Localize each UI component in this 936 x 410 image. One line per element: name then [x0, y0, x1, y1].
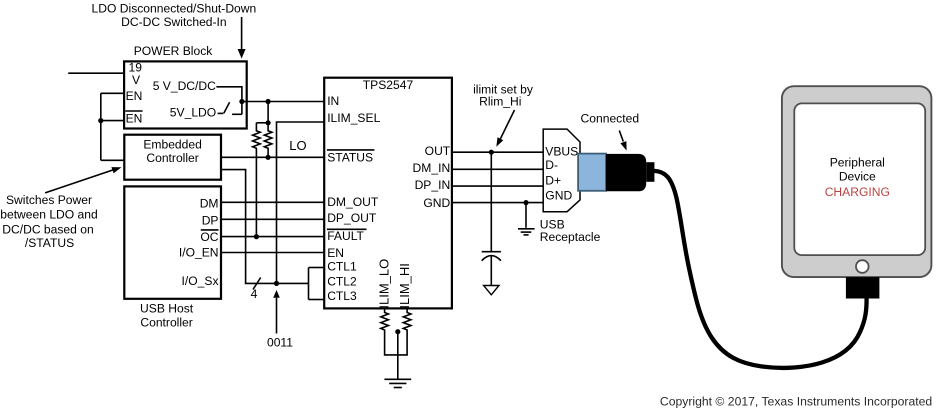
svg-text:CTL2: CTL2	[327, 275, 357, 289]
ground arrow (capacitor)	[484, 286, 499, 295]
pin STATUS-bar label	[327, 150, 375, 165]
svg-text:EN: EN	[126, 89, 143, 103]
svg-text:4: 4	[251, 287, 258, 301]
svg-text:DM: DM	[200, 197, 219, 211]
arrow 0011	[273, 290, 280, 334]
switch S1 blade (LDO disconnected)	[224, 102, 230, 113]
svg-text:TPS2547: TPS2547	[363, 78, 414, 92]
svg-text:GND: GND	[545, 189, 572, 203]
pin OC-bar label	[200, 230, 218, 244]
junction dot rail	[266, 99, 271, 104]
USB Host Controller box	[124, 186, 221, 298]
CTL bus bracket	[309, 268, 325, 300]
switch S1 pivot lead	[218, 112, 224, 114]
wire EN input	[101, 92, 124, 94]
svg-text:GND: GND	[423, 196, 450, 210]
svg-text:OC: OC	[200, 230, 218, 244]
USB receptacle outline	[543, 129, 580, 212]
junction dot GND	[523, 200, 528, 205]
Embedded Controller label	[143, 138, 202, 166]
wire LDO contact stub	[232, 113, 242, 115]
wire ILIM ground	[397, 332, 399, 380]
junction dot resistor top	[266, 120, 271, 125]
wire ILIM_SEL	[277, 122, 325, 283]
svg-text:DP_IN: DP_IN	[415, 178, 451, 192]
svg-text:Connected: Connected	[581, 112, 640, 126]
svg-text:LDO Disconnected/Shut-Down: LDO Disconnected/Shut-Down	[92, 2, 257, 16]
label USB Receptacle	[540, 217, 601, 244]
svg-text:I/O_Sx: I/O_Sx	[182, 274, 219, 288]
junction dot bus/ILIM_SEL	[274, 281, 279, 286]
wire EC to CTL bus	[221, 170, 309, 284]
svg-text:EN: EN	[327, 246, 344, 260]
junction dot ILIM ground node	[395, 329, 400, 334]
svg-text:D+: D+	[545, 173, 561, 187]
svg-text:POWER Block: POWER Block	[134, 44, 214, 58]
wire OC to FAULT	[221, 236, 324, 238]
svg-text:ILIM_HI: ILIM_HI	[397, 263, 412, 309]
wire DM_IN to D-	[452, 168, 543, 170]
wire STATUS	[221, 156, 324, 158]
svg-text:CHARGING: CHARGING	[825, 185, 890, 199]
svg-text:Embedded: Embedded	[143, 138, 202, 152]
junction dot EN-bar	[98, 118, 103, 123]
svg-text:Switches Power: Switches Power	[6, 193, 92, 207]
Embedded Controller box	[124, 135, 221, 180]
svg-text:D-: D-	[545, 158, 558, 172]
svg-text:ILIM_LO: ILIM_LO	[377, 259, 392, 309]
tablet home button	[856, 260, 869, 273]
svg-text:DM_OUT: DM_OUT	[327, 195, 379, 209]
USB plug strain relief tab	[646, 162, 654, 182]
bus slash	[253, 278, 261, 290]
resistor R3 ILIM_LO	[381, 308, 398, 355]
arrow from Switches Power note to Embedded Controller	[45, 167, 121, 193]
wire rail drop to resistors	[267, 102, 269, 123]
arrow ilimit to OUT node	[496, 110, 514, 147]
junction dot power output	[239, 99, 244, 104]
wire vertical EN bus	[100, 93, 102, 160]
USB plug black body	[606, 154, 646, 191]
svg-text:Peripheral: Peripheral	[830, 155, 885, 169]
pin EN-bar label	[125, 111, 142, 125]
wire DC/DC output	[216, 87, 242, 115]
svg-text:ILIM_SEL: ILIM_SEL	[327, 111, 380, 125]
svg-text:OUT: OUT	[425, 144, 451, 158]
wire DP to DP_OUT	[221, 218, 324, 220]
svg-text:STATUS: STATUS	[327, 151, 373, 165]
svg-text:0011: 0011	[267, 335, 293, 349]
svg-text:DC/DC based on: DC/DC based on	[2, 222, 93, 236]
arrow from annotation to POWER Block	[238, 17, 246, 59]
tablet body (Peripheral Device)	[782, 86, 932, 277]
svg-text:DM_IN: DM_IN	[413, 161, 451, 175]
IC U1 TPS2547 box	[324, 78, 452, 309]
ground symbol (ILIM resistors)	[384, 379, 411, 387]
svg-text:DP_OUT: DP_OUT	[327, 211, 377, 225]
svg-text:between LDO and: between LDO and	[0, 208, 98, 222]
pin 19V label	[129, 61, 143, 88]
wire 19V input	[68, 72, 124, 74]
junction dot OUT/capacitor	[489, 150, 494, 155]
svg-text:IN: IN	[327, 94, 339, 108]
svg-text:/STATUS: /STATUS	[25, 236, 74, 250]
resistor R1 pull-up (FAULT)	[253, 123, 261, 237]
svg-text:Receptacle: Receptacle	[540, 230, 601, 244]
ground symbol (GND net)	[518, 203, 535, 235]
annotation: LDO Disconnected/Shut-Down DC-DC Switched-In	[92, 2, 257, 29]
wire GND to receptacle	[452, 202, 543, 204]
svg-text:CTL1: CTL1	[327, 260, 357, 274]
wire DM to DM_OUT	[221, 201, 324, 203]
tablet screen	[794, 103, 925, 255]
svg-text:LO: LO	[289, 138, 306, 153]
svg-text:DP: DP	[202, 214, 219, 228]
svg-text:DC-DC Switched-In: DC-DC Switched-In	[121, 15, 227, 29]
svg-text:5 V_DC/DC: 5 V_DC/DC	[153, 79, 216, 93]
svg-text:I/O_EN: I/O_EN	[179, 246, 219, 260]
svg-text:VBUS: VBUS	[545, 145, 578, 159]
junction dot R2 to STATUS wire	[266, 155, 271, 160]
tablet dock connector	[846, 277, 880, 298]
USB Host Controller label	[140, 302, 194, 330]
svg-text:Device: Device	[839, 170, 876, 184]
svg-text:V: V	[132, 73, 141, 87]
arrow Connected to plug	[619, 131, 626, 151]
svg-text:Rlim_Hi: Rlim_Hi	[479, 95, 521, 109]
svg-text:USB Host: USB Host	[140, 302, 194, 316]
pin FAULT-bar label	[327, 229, 367, 243]
svg-text:Controller: Controller	[140, 316, 192, 330]
cable from plug to tablet	[654, 171, 866, 368]
wire OUT to VBUS	[452, 151, 543, 153]
svg-text:5V_LDO: 5V_LDO	[170, 106, 216, 120]
resistor R2 pull-up (STATUS)	[264, 123, 272, 158]
svg-text:FAULT: FAULT	[327, 229, 364, 243]
wire I/O_EN to EN	[221, 252, 324, 254]
annotation: Switches Power between LDO and DC/DC based on /STATUS	[0, 193, 98, 250]
USB plug blue insert	[578, 154, 606, 191]
capacitor C1	[482, 152, 501, 285]
wire DP_IN to D+	[452, 185, 543, 187]
junction dot R1 to OC wire	[254, 234, 259, 239]
wire to Embedded Controller	[101, 159, 125, 161]
label Peripheral Device CHARGING	[825, 155, 890, 199]
annotation: ilimit set by Rlim_Hi	[473, 82, 534, 108]
wire EN-bar input	[101, 120, 124, 122]
wire resistor top bracket	[256, 122, 268, 124]
svg-text:Copyright © 2017, Texas Instru: Copyright © 2017, Texas Instruments Inco…	[660, 395, 932, 409]
resistor R4 ILIM_HI	[398, 308, 411, 355]
POWER Block box	[124, 61, 247, 128]
svg-text:Controller: Controller	[146, 151, 198, 165]
wire 5V rail to IN	[242, 101, 324, 103]
svg-text:CTL3: CTL3	[327, 289, 357, 303]
svg-text:EN: EN	[126, 111, 143, 125]
